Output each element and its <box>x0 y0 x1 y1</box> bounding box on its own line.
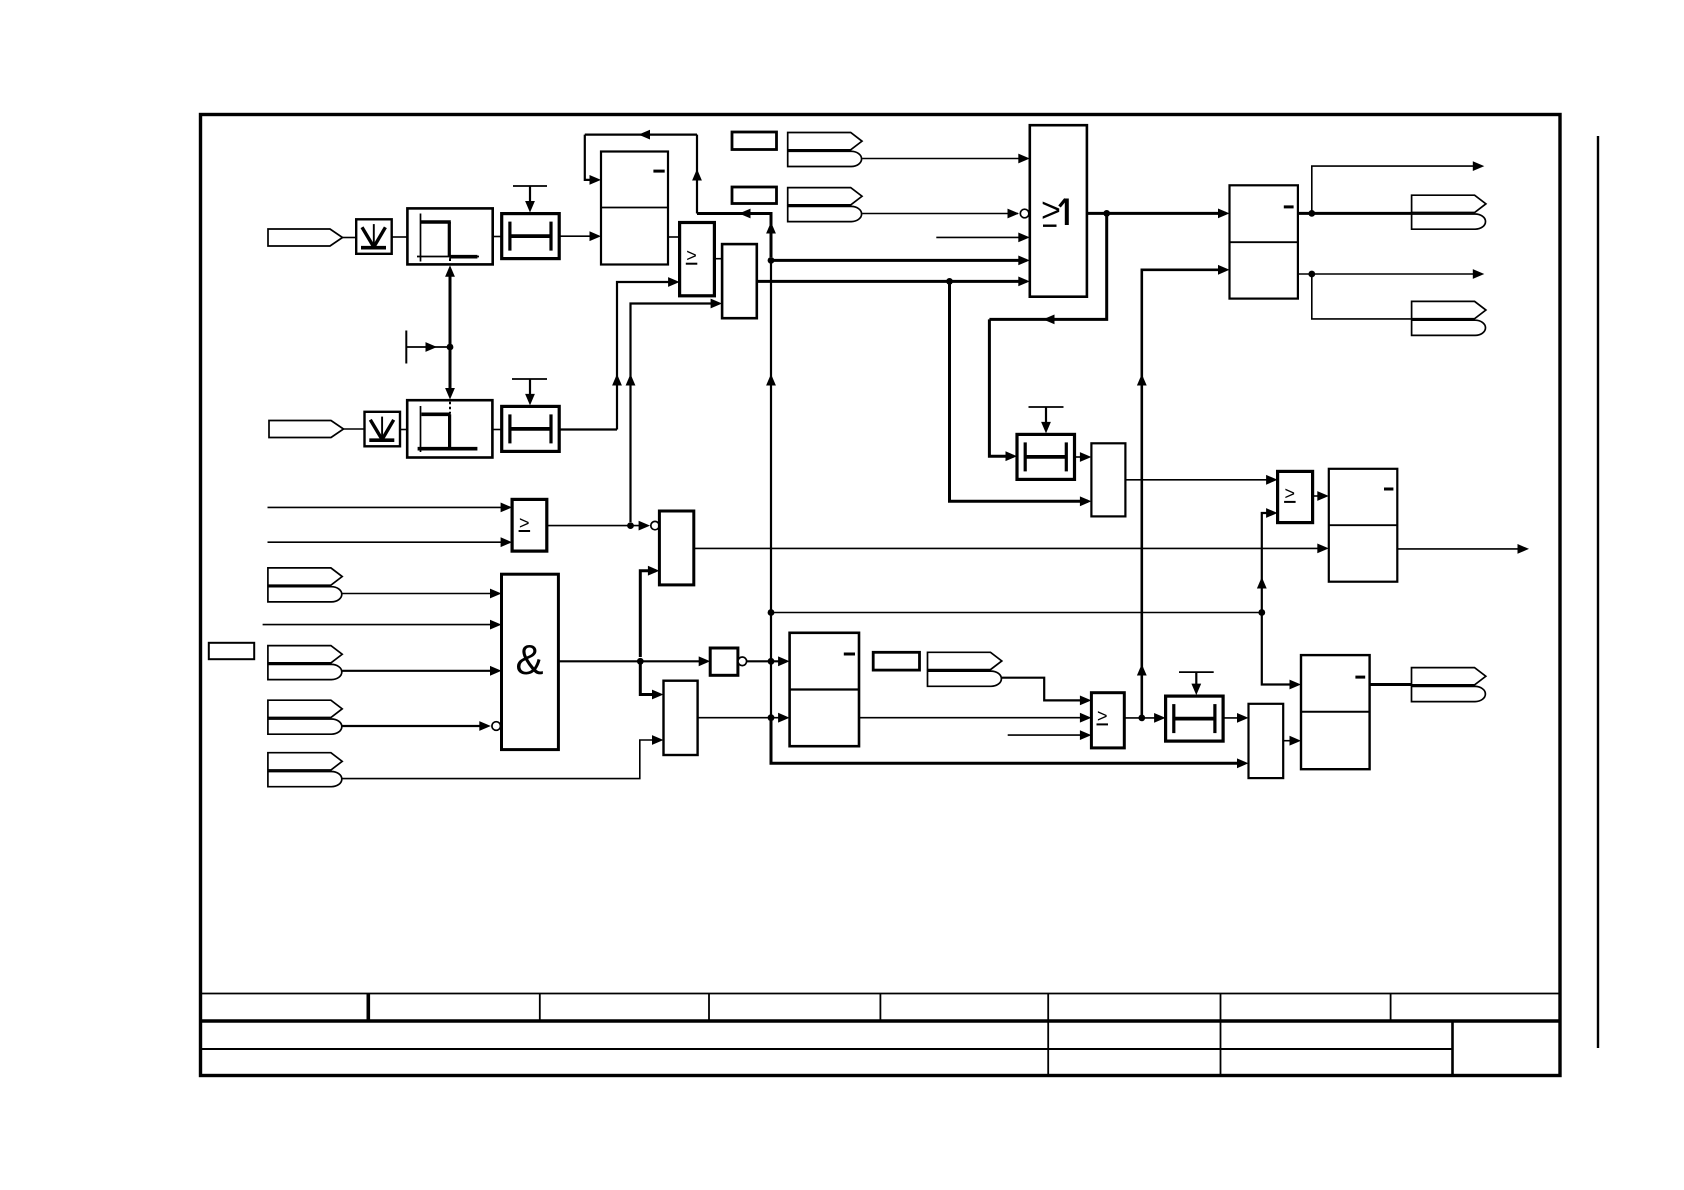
feedback wire y140 left <box>585 134 697 136</box>
wire AND output <box>558 660 706 662</box>
wire D3 output to arrow <box>1397 548 1525 550</box>
long vertical x1141.8 from J8 to D1 input 2 <box>1142 270 1226 718</box>
input connector pair P3 <box>268 568 342 602</box>
svg-text:>: > <box>686 246 697 266</box>
svg-text:>: > <box>1097 706 1108 726</box>
wire vertical x630 to M0 input 2 <box>631 304 719 523</box>
wire F1 to C1 <box>668 236 680 238</box>
direction arrow up x771 <box>766 374 776 386</box>
feedback wire from node J3 up to y213 <box>697 214 771 258</box>
inverter N1 <box>710 648 738 675</box>
wire OR1 input 3 <box>936 236 1026 238</box>
wire X2 to V2 <box>344 428 366 430</box>
junction J2 <box>627 522 634 529</box>
wire J11 down to OR3 input 1 <box>640 661 660 694</box>
logic block M3 <box>1249 704 1284 778</box>
wire X1 to V1 <box>343 237 357 239</box>
direction arrow up x1141.8 high <box>1137 374 1147 386</box>
wire P1 to OR1 input 1 <box>862 158 1026 160</box>
delay block T4 <box>1166 696 1224 741</box>
negation bubble OR1 input 2 <box>1020 209 1029 218</box>
direction arrow up x630 <box>626 374 636 386</box>
input connector pair P7 <box>928 652 1002 686</box>
flip-flop block F1 <box>601 152 668 265</box>
title block top line <box>200 993 1559 995</box>
wire P6 to OR3 input 2 <box>342 740 660 779</box>
OR gate OR1 <box>1030 125 1087 297</box>
wire P2 to OR1 input 2 negated <box>862 213 1018 215</box>
junction J12 <box>768 658 775 665</box>
title cell divider f <box>1220 994 1222 1022</box>
wire M3 output to D4 input 2 <box>1283 740 1297 742</box>
wire OR2 output to D3 input 1 <box>1313 495 1326 497</box>
wire P4 to AND input 3 <box>342 670 498 672</box>
wire J14 up to OR2 input 2 <box>1262 513 1274 613</box>
junction J5 on M0 output <box>946 278 953 285</box>
wire T4 to M3 input 1 <box>1223 717 1245 719</box>
limiter symbol block V2 <box>365 412 401 447</box>
junction J13 <box>768 609 775 616</box>
delay block T1 <box>502 214 560 259</box>
junction J14 <box>1258 609 1265 616</box>
wire M1 output to D3 input 2 <box>694 547 1325 549</box>
delay block T2 <box>502 406 560 451</box>
logic block M2 <box>1091 443 1125 516</box>
wire D4 output to pair PC <box>1370 683 1412 686</box>
wire J13 right to x1261.8 <box>771 612 1262 614</box>
junction J10 <box>1308 271 1315 278</box>
wire and gate output to M1 input 2 <box>640 571 656 657</box>
T3 setting input symbol <box>1029 407 1064 433</box>
limiter symbol block V1 <box>356 219 392 254</box>
title lower divider k <box>1451 1021 1454 1075</box>
title block thick divider <box>200 1019 1559 1022</box>
title cell divider e <box>1047 994 1049 1022</box>
feedback direction arrow up <box>766 222 776 234</box>
wire D2 output to OR4 input 2 <box>859 717 1088 719</box>
flip-flop block D4 <box>1301 655 1370 769</box>
T2 setting input symbol <box>512 379 547 405</box>
wire D1 output 2 right to arrow <box>1298 273 1481 275</box>
title block middle line <box>200 1048 1453 1050</box>
junction J3 on OR1 input 4 wire <box>768 257 775 264</box>
junction J9 <box>1308 210 1315 217</box>
long vertical x771 <box>770 260 772 763</box>
svg-text:&: & <box>515 636 543 683</box>
title cell divider g <box>1390 994 1392 1022</box>
input connector pair P6 <box>268 753 342 787</box>
wire N1 to D2 input 1 <box>747 660 786 662</box>
junction J15 <box>768 714 775 721</box>
direction arrow up x1261.8 <box>1257 577 1267 589</box>
OR gate OR4 <box>1091 693 1124 748</box>
wire OR5 output to M1 negated input <box>547 525 647 527</box>
wire H2 to T2 <box>492 429 501 431</box>
svg-text:>: > <box>519 513 530 533</box>
wire J9 up right to arrow <box>1312 166 1481 213</box>
T1 setting input symbol <box>513 186 547 213</box>
feedback direction arrow up x697 <box>692 169 702 181</box>
wire x989 down to T3 input <box>989 319 1013 456</box>
title cell divider b <box>539 994 541 1022</box>
wire J6 down and left to T3 <box>989 213 1106 319</box>
title lower divider i <box>1220 1021 1222 1075</box>
feedback wire into F1 set input <box>585 135 598 180</box>
wire J3 to OR1 input 4 <box>771 259 1027 262</box>
wire OR1 output to D1 input 1 <box>1087 212 1226 215</box>
wire T1 to F1 <box>559 235 599 237</box>
direction arrow up x1141.8 low <box>1137 664 1147 676</box>
text frame R1 <box>732 132 777 150</box>
wire OR3 output to D2 input 2 <box>698 717 786 719</box>
svg-text:>: > <box>1041 192 1061 230</box>
output connector pair PB <box>1412 301 1486 335</box>
flip-flop block D2 <box>790 633 859 746</box>
wire AND input 2 <box>263 624 498 626</box>
junction J6 on OR1 output <box>1103 210 1110 217</box>
wire P3 to AND input 1 <box>342 593 498 595</box>
wire C1 to M0 <box>714 258 722 260</box>
OR gate OR3 <box>664 681 698 755</box>
logic block M1 <box>659 511 693 585</box>
direction arrow left y319 <box>1043 315 1055 325</box>
wire D1 output 1 to pair PA <box>1298 212 1412 215</box>
flip-flop block D1 <box>1230 185 1298 298</box>
input connector pair P1 <box>788 133 862 167</box>
coupling line H1 to H2 with arrows <box>445 265 455 399</box>
junction J11 on AND output <box>637 658 644 665</box>
wire V2 to H2 <box>400 429 407 431</box>
svg-text:>: > <box>1285 484 1296 504</box>
feedback wire x697 up <box>696 135 698 214</box>
wire P7 to OR4 input 1 <box>1002 678 1088 701</box>
flip-flop block D3 <box>1329 469 1398 582</box>
title cell divider a <box>366 994 370 1022</box>
right margin rule <box>1597 136 1599 1048</box>
negation bubble N1 output <box>738 657 747 666</box>
wire J10 down to pair PB <box>1312 274 1412 319</box>
hysteresis block H1 <box>407 208 492 264</box>
logic block M0 <box>722 244 757 318</box>
output connector pair PC <box>1412 668 1486 702</box>
wire x771 down right to M3 input 2 <box>771 718 1245 764</box>
wire H1 to T1 <box>493 236 502 238</box>
text frame R2 <box>732 187 777 204</box>
wire M0 output to OR1 input 5 <box>757 280 1027 283</box>
text frame R3 <box>873 652 919 670</box>
junction J1 on coupling line <box>447 344 454 351</box>
OR gate OR2 <box>1278 471 1313 522</box>
wire T3 to M2 <box>1075 456 1089 458</box>
wire J14 down to D4 input 1 <box>1262 613 1298 685</box>
input connector X2 <box>269 421 344 438</box>
junction J8 <box>1138 715 1145 722</box>
negation bubble AND input 4 <box>492 722 501 731</box>
OR gate OR5 <box>512 499 547 551</box>
negation bubble M1 input <box>651 521 659 529</box>
T4 setting input symbol <box>1179 672 1214 695</box>
wire M2 output to OR2 input 1 <box>1125 479 1274 481</box>
input connector pair P5 <box>268 700 342 734</box>
feedback direction arrow left y140 <box>639 130 651 140</box>
wire T2 output to vertical x617 <box>559 428 617 430</box>
output connector pair PA <box>1412 195 1486 229</box>
comparator block C1 <box>680 223 715 296</box>
wire OR4 input 3 <box>1008 734 1088 736</box>
title lower divider h <box>1047 1021 1049 1075</box>
AND gate U1 <box>502 574 559 749</box>
wire OR5 input 1 <box>268 506 509 508</box>
wire P5 to AND negated input 4 <box>342 725 486 727</box>
wire J5 down to M2 input 2 <box>950 281 1089 501</box>
input connector X1 <box>268 229 343 246</box>
delay block T3 <box>1017 434 1075 479</box>
wire OR5 input 2 <box>268 541 509 543</box>
text frame R4 <box>209 643 254 659</box>
direction arrow up x617 <box>612 374 622 386</box>
title cell divider d <box>879 994 881 1022</box>
wire V1 to H1 <box>392 236 408 238</box>
diagram frame border <box>201 115 1561 1076</box>
input connector pair P4 <box>268 646 342 680</box>
title cell divider c <box>708 994 710 1022</box>
input connector pair P2 <box>788 188 862 222</box>
wire from T2 chain vertical x617 to C1 input 2 <box>617 282 676 430</box>
feedback direction arrow left <box>739 209 751 219</box>
fixed value tee symbol <box>406 331 449 364</box>
wire OR4 output to T4 <box>1124 717 1162 719</box>
hysteresis block H2 <box>407 400 492 457</box>
